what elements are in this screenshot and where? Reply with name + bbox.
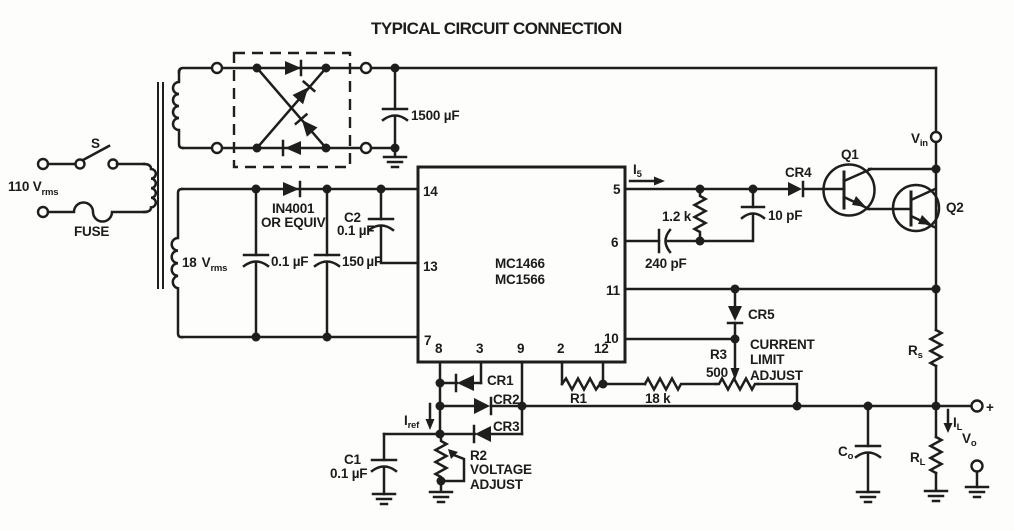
svg-text:8: 8: [435, 341, 443, 356]
potentiometer R2: [436, 434, 533, 492]
diode CR3: [436, 419, 523, 442]
wire: output rail to + terminal: [522, 405, 971, 408]
svg-text:6: 6: [611, 235, 619, 250]
wire: pin 9 column: [521, 362, 524, 434]
node Iref arrow: [404, 404, 435, 431]
resistor 1.2k: [662, 185, 706, 246]
svg-text:1.2 k: 1.2 k: [662, 209, 692, 224]
node - output terminal: [972, 461, 983, 488]
capacitor 0.1uF (input filter): [244, 185, 308, 342]
svg-text:240 pF: 240 pF: [645, 256, 687, 271]
diode CR5: [728, 285, 775, 340]
fuse: [38, 203, 146, 240]
svg-text:C1: C1: [344, 452, 362, 467]
transformer core: [158, 82, 163, 289]
wire: pin 5 to CR4: [625, 188, 789, 191]
ground (below R2): [430, 481, 452, 502]
capacitor 1500uF: [383, 64, 459, 153]
wire switch to transformer primary: [117, 163, 144, 166]
svg-text:1500 µF: 1500 µF: [411, 108, 459, 123]
svg-text:150 µF: 150 µF: [342, 254, 382, 269]
node: AC input terminals of bridge: [212, 63, 222, 153]
svg-text:OR EQUIV: OR EQUIV: [261, 215, 326, 230]
svg-text:7: 7: [424, 333, 431, 348]
bridge rectifier dashed box: [234, 53, 350, 167]
wire: pin 8 column: [439, 362, 442, 434]
svg-text:MC1566: MC1566: [495, 272, 546, 287]
svg-text:18 k: 18 k: [645, 391, 671, 406]
op-amp U1 MC1466/MC1566 regulator IC: [418, 167, 625, 362]
node I5 arrow: [630, 162, 665, 186]
transformer secondary (lower, 18 Vrms): [172, 189, 182, 337]
svg-text:2: 2: [557, 341, 564, 356]
ground (below Co): [857, 492, 879, 502]
svg-text:14: 14: [423, 184, 438, 199]
R3 wiper arrow: [731, 339, 740, 380]
transistor Q1: [824, 147, 875, 216]
diode bridge D2 (bottom): [283, 141, 301, 155]
wire: upper secondary bottom rail to bridge/ground: [183, 147, 395, 150]
svg-text:VOLTAGE: VOLTAGE: [470, 462, 532, 477]
node Vin terminal: [911, 68, 941, 149]
wire: bridge rising diagonal: [257, 68, 326, 148]
capacitor C2 0.1uF: [337, 185, 418, 264]
svg-text:CURRENT: CURRENT: [750, 337, 816, 352]
svg-text:0.1 µF: 0.1 µF: [271, 254, 308, 269]
wire CR4 to Q1 base: [804, 188, 844, 191]
node: DC output terminals of bridge: [361, 63, 371, 153]
svg-text:13: 13: [423, 259, 438, 274]
node: Q1/Q2 collector junction: [932, 165, 941, 174]
capacitor C1 0.1uF: [330, 434, 396, 494]
svg-text:ADJUST: ADJUST: [750, 368, 804, 383]
wire: C1 to CR3 node: [384, 433, 440, 436]
switch S: [38, 136, 118, 169]
resistor RL: [910, 406, 942, 473]
resistor Rs: [908, 330, 942, 366]
wire: lower rail (18V winding bottom) to IC pin 7: [182, 336, 418, 339]
node: junction R3 drop / output rail: [793, 402, 802, 411]
wire: Q1 emitter to Q2 base: [868, 208, 911, 211]
svg-text:5: 5: [613, 182, 621, 197]
wire: bridge falling diagonal: [257, 68, 326, 148]
capacitor 10 pF: [700, 185, 802, 242]
diode CR2: [436, 392, 527, 414]
diode CR1: [436, 373, 515, 391]
svg-text:LIMIT: LIMIT: [750, 352, 785, 367]
capacitor 240 pF (series on pin 6): [625, 230, 700, 271]
svg-text:CR4: CR4: [785, 165, 812, 180]
transformer secondary (upper): [173, 71, 183, 148]
diode bridge D4 (falling diagonal): [296, 115, 318, 137]
ground (below - terminal): [966, 487, 988, 497]
wire: Q1 collector to Vin node: [869, 168, 936, 171]
svg-text:R1: R1: [570, 391, 588, 406]
svg-text:S: S: [91, 136, 100, 151]
wire: Vin column down through Q2 to Rs: [935, 142, 938, 330]
resistor R1: [562, 362, 608, 406]
diode bridge D1 (top): [285, 61, 301, 75]
node: pin11/Q2 emitter junction: [932, 285, 941, 294]
svg-text:CR3: CR3: [493, 419, 520, 434]
svg-text:R3: R3: [710, 347, 728, 362]
svg-text:CR1: CR1: [487, 373, 514, 388]
wire: lower rail (18V winding top) to IC pin 14: [182, 188, 418, 191]
wire: R3 to output rail: [758, 384, 797, 406]
wire: pin 3 column: [480, 362, 483, 383]
capacitor Co: [838, 402, 880, 493]
svg-text:FUSE: FUSE: [74, 224, 109, 239]
resistor 18k: [603, 379, 716, 407]
svg-text:ADJUST: ADJUST: [470, 477, 524, 492]
svg-text:10 pF: 10 pF: [768, 208, 802, 223]
transformer primary winding: [144, 164, 156, 212]
node: CURRENT LIMIT ADJUST label: [750, 337, 816, 383]
svg-text:+: +: [986, 400, 994, 415]
potentiometer R3 500: [706, 347, 758, 390]
wire: Rs to output rail: [935, 366, 938, 406]
ground (below RL): [925, 473, 947, 501]
node: pin10/CR5 junction: [731, 335, 740, 344]
node + output terminal: [972, 400, 995, 415]
svg-text:TYPICAL CIRCUIT CONNECTION: TYPICAL CIRCUIT CONNECTION: [371, 19, 622, 38]
svg-text:500: 500: [706, 365, 728, 380]
svg-text:CR5: CR5: [748, 307, 775, 322]
svg-text:MC1466: MC1466: [495, 256, 546, 271]
wire: top rail from secondary to Vin column: [179, 68, 936, 72]
svg-text:0.1 µF: 0.1 µF: [337, 223, 374, 238]
svg-text:3: 3: [476, 341, 484, 356]
diode bridge D3 (rising diagonal): [293, 82, 315, 105]
svg-text:R2: R2: [470, 448, 487, 463]
diode CR4: [785, 165, 812, 196]
svg-text:CR2: CR2: [493, 392, 519, 407]
node: Rs/output junction: [932, 402, 941, 411]
svg-text:12: 12: [594, 341, 609, 356]
svg-text:IN4001: IN4001: [272, 201, 315, 216]
wire: pin 11 rail: [625, 288, 936, 291]
svg-text:9: 9: [517, 341, 524, 356]
node IL arrow: [944, 410, 963, 433]
diode IN4001 OR EQUIV: [261, 182, 326, 230]
capacitor 150uF: [315, 185, 382, 342]
ground (below C1): [373, 494, 395, 504]
ground (below 1500uF): [384, 148, 406, 167]
svg-text:Q1: Q1: [841, 147, 859, 162]
transistor Q2: [893, 185, 964, 231]
wire: pin 10 rail: [625, 338, 735, 341]
svg-text:Q2: Q2: [946, 200, 964, 215]
svg-text:0.1 µF: 0.1 µF: [330, 466, 367, 481]
svg-text:11: 11: [606, 283, 621, 298]
node: bridge corner junctions: [253, 64, 331, 153]
